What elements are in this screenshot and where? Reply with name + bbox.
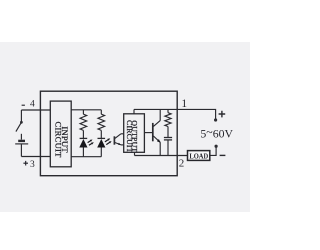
switch lower stub wire: [20, 134, 22, 140]
LOAD box wire to minus terminal: [209, 147, 216, 156]
LOAD box: [188, 151, 210, 161]
switch S1 contact dot: [20, 121, 23, 124]
phototransistor Q1 collector diagonal: [115, 134, 121, 139]
label minus of input: [22, 104, 25, 106]
wire R1 to LED D1: [82, 130, 84, 138]
LED D2 cathode bar: [98, 137, 106, 139]
wire: output box top stub: [133, 109, 135, 113]
LED D1 cathode bar: [80, 137, 88, 139]
LED D2 triangle: [97, 139, 105, 148]
phototransistor Q1 emitter stub: [121, 144, 124, 146]
LED D2 emission arrows: [105, 138, 112, 144]
wire: top rail LED side: [71, 109, 101, 111]
label plus of input: [23, 161, 28, 166]
plus sign of supply: [219, 111, 226, 118]
transistor Q2 collector diagonal: [153, 121, 160, 127]
svg-text:INPUTCIRCUIT: INPUTCIRCUIT: [54, 122, 70, 159]
resistor R2 zigzag: [98, 114, 105, 130]
capacitor C1 top plate: [164, 137, 172, 139]
svg-text:2: 2: [179, 157, 185, 169]
wire R3 to capacitor C1: [167, 127, 169, 138]
wire: battery to terminal 3: [20, 145, 22, 157]
phototransistor Q1 emitter diagonal: [115, 143, 121, 145]
svg-text:OUTPUTCIRCUIT: OUTPUTCIRCUIT: [125, 120, 139, 153]
wire C1 to bottom rail: [167, 140, 169, 156]
LED D1 emission arrows: [88, 140, 94, 146]
phototransistor Q1 emitter arrowhead: [118, 143, 121, 145]
capacitor C1 bottom plate: [164, 139, 172, 141]
battery BT1 positive plate (long thin): [15, 143, 28, 145]
wire LED D2 to bottom rail: [100, 147, 102, 156]
transistor Q2 emitter wire: [159, 142, 161, 155]
svg-text:4: 4: [30, 100, 35, 110]
SSR module outline box: [40, 91, 177, 176]
wire: top rail to terminal 1 and +: [134, 109, 216, 119]
input circuit block U1: [50, 101, 71, 167]
battery BT1 negative plate (short thick): [18, 140, 25, 142]
switch S1 blade: [16, 122, 22, 131]
wire LED D1 to bottom rail: [82, 147, 84, 156]
resistor R3 top wire: [167, 109, 169, 112]
wire: terminal 4 horizontal: [21, 109, 50, 111]
phototransistor Q1 collector stub: [121, 133, 124, 135]
minus sign of supply: [220, 154, 226, 156]
resistor R2 branch top wire: [100, 110, 102, 114]
svg-text:1: 1: [181, 98, 187, 110]
transistor Q2 collector wire: [159, 109, 161, 120]
transistor Q2 emitter arrowhead: [157, 139, 161, 143]
wire: terminal 3 horizontal: [21, 156, 50, 158]
wire R2 to LED D2: [100, 130, 102, 138]
LED D1 triangle: [79, 139, 87, 148]
wire: terminal 4 vertical drop: [20, 110, 22, 121]
plus terminal dot: [214, 118, 217, 121]
resistor R1 zigzag: [80, 114, 87, 130]
transistor Q2 emitter diagonal: [153, 136, 160, 142]
svg-text:3: 3: [30, 160, 35, 170]
resistor R3 zigzag: [165, 113, 171, 127]
wire: bottom rail to LOAD: [135, 155, 188, 157]
phototransistor Q1 base bar: [113, 136, 115, 144]
wire: output box bottom stub: [134, 152, 136, 155]
transistor Q2 base wire: [144, 132, 152, 134]
minus terminal dot: [215, 145, 218, 148]
transistor Q2 base bar: [152, 123, 154, 141]
resistor R1 branch top wire: [82, 110, 84, 114]
svg-text:5~60V: 5~60V: [200, 125, 233, 141]
wire: bottom rail LED side: [71, 156, 101, 158]
svg-text:LOAD: LOAD: [189, 151, 208, 160]
output circuit block U2: [124, 114, 145, 153]
